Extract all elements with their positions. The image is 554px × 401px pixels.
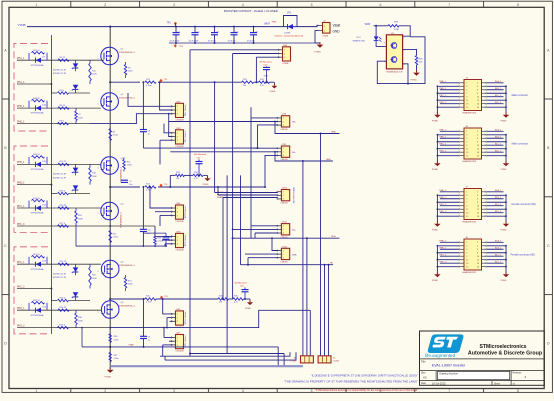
resistor R6 22 bbox=[58, 105, 69, 109]
connector J6 HEADER 8X2 bbox=[459, 126, 487, 163]
wire VBAT to R39 bbox=[374, 25, 389, 27]
resistor R15 4.70m bbox=[145, 296, 156, 304]
svg-text:PHD_1: PHD_1 bbox=[17, 308, 25, 310]
zener diodes BZX84C12-TR pair bbox=[53, 264, 78, 300]
resistor R24 100K bbox=[75, 208, 84, 226]
svg-text:10uF-100V: 10uF-100V bbox=[189, 40, 200, 42]
resistor R51 10 bypass bbox=[29, 254, 47, 264]
svg-text:4.7k: 4.7k bbox=[194, 178, 198, 180]
net PHD_1 bbox=[17, 308, 25, 310]
ground PGND J8 right bbox=[501, 272, 510, 282]
wire VBatt GND to ground bbox=[315, 31, 320, 43]
ground PGND J6 left bbox=[432, 161, 441, 171]
svg-text:3: 3 bbox=[283, 155, 284, 157]
svg-text:BLD_1: BLD_1 bbox=[495, 211, 502, 213]
wire trunk main bbox=[109, 47, 111, 369]
svg-text:14: 14 bbox=[477, 212, 479, 214]
wire J6 right harness bbox=[487, 129, 507, 164]
wire row PHC_1 bbox=[17, 207, 101, 209]
svg-text:3: 3 bbox=[105, 174, 106, 176]
bus thick pale bbox=[110, 365, 303, 367]
testpoint TP3 bbox=[160, 79, 169, 83]
capacitor C5 bbox=[247, 26, 259, 44]
label VBAT top bbox=[264, 21, 277, 26]
resistor D12 10 bypass bbox=[29, 198, 47, 208]
svg-text:PHB_3: PHB_3 bbox=[17, 121, 25, 123]
transistor Q3 STB300NF04L-4 bbox=[98, 157, 125, 183]
label STMicroelectronics bbox=[480, 344, 527, 350]
wire G2 row226 extension bbox=[90, 225, 155, 227]
connector J1A bbox=[278, 44, 291, 65]
svg-text:PHC_1: PHC_1 bbox=[17, 262, 25, 264]
svg-text:100K: 100K bbox=[128, 71, 133, 73]
resistor R53 10k bbox=[242, 79, 254, 87]
svg-text:2: 2 bbox=[477, 242, 478, 244]
svg-text:PGND: PGND bbox=[270, 91, 276, 93]
svg-text:2: 2 bbox=[283, 121, 284, 123]
svg-text:3: 3 bbox=[173, 3, 175, 7]
svg-text:"IL DISEGNO E’ DI PROPRIETA’ S: "IL DISEGNO E’ DI PROPRIETA’ ST CHE SI R… bbox=[311, 373, 418, 377]
connector CN8 GH+ bbox=[277, 114, 297, 131]
svg-text:1: 1 bbox=[98, 213, 99, 215]
wire phase B filter row bbox=[170, 174, 207, 176]
svg-text:PHC_1: PHC_1 bbox=[439, 255, 446, 257]
wire GH- row to net GHB bbox=[275, 152, 333, 161]
svg-text:47uF-BV: 47uF-BV bbox=[228, 40, 237, 42]
svg-text:PHB_1: PHB_1 bbox=[439, 197, 446, 199]
capacitor C2 bbox=[189, 26, 201, 44]
svg-text:PHB_1: PHB_1 bbox=[439, 137, 446, 139]
connector J8 HEADER 8X2 bbox=[459, 237, 487, 274]
wire J7 left harness bbox=[437, 189, 459, 224]
resistor R21 4.70m bbox=[109, 231, 119, 243]
diode D14 STPS2H100A bbox=[31, 307, 47, 317]
wire J8 left harness bbox=[437, 240, 459, 275]
svg-text:11: 11 bbox=[466, 260, 468, 262]
svg-text:STPS2H100A: STPS2H100A bbox=[31, 212, 45, 215]
svg-text:1: 1 bbox=[98, 312, 99, 314]
svg-text:4: 4 bbox=[477, 86, 478, 88]
net PHC_3 bbox=[17, 224, 25, 226]
svg-text:2: 2 bbox=[105, 203, 106, 205]
svg-text:R48 10: R48 10 bbox=[33, 98, 41, 100]
net PHB_1 bbox=[17, 106, 25, 108]
resistor R49 10 bypass bbox=[29, 154, 47, 164]
svg-text:BLD_1: BLD_1 bbox=[495, 262, 502, 264]
svg-text:15: 15 bbox=[466, 216, 468, 218]
wire phase W into CN10 bbox=[223, 197, 278, 199]
wire CN2 pin wires bbox=[90, 81, 172, 123]
diode D10 STPS2H100A bbox=[31, 105, 47, 115]
svg-text:STB300NF04L-4: STB300NF04L-4 bbox=[119, 265, 135, 267]
wire GD row to net GDA bbox=[232, 235, 340, 239]
svg-text:CN11: CN11 bbox=[282, 222, 288, 224]
svg-text:1: 1 bbox=[466, 242, 467, 244]
svg-text:PHC_1: PHC_1 bbox=[439, 95, 446, 97]
svg-text:R20 22: R20 22 bbox=[60, 205, 68, 207]
diode D12 STPS2H100A bbox=[31, 204, 47, 214]
wire phase B sense row bbox=[110, 186, 265, 188]
resistor R48 10 bypass bbox=[29, 98, 47, 108]
svg-text:16: 16 bbox=[477, 107, 479, 109]
svg-text:470m: 470m bbox=[114, 339, 119, 341]
svg-text:7: 7 bbox=[466, 142, 467, 144]
resistor R5 4.70m bbox=[109, 129, 119, 141]
wire phase B filter riser bbox=[169, 175, 171, 188]
svg-text:3: 3 bbox=[283, 125, 284, 127]
svg-text:PGND: PGND bbox=[432, 280, 439, 282]
connector CN7 ECU- Select bbox=[171, 333, 187, 353]
svg-text:4.70m: 4.70m bbox=[146, 85, 152, 87]
connector CN3 GD- Select bbox=[171, 128, 187, 148]
net PHA_3 bbox=[17, 81, 25, 84]
resistor R29 0 bbox=[58, 324, 69, 328]
wire CN4 pin wires bbox=[149, 186, 172, 226]
svg-text:100K: 100K bbox=[92, 74, 97, 76]
wire bottom row 356 bbox=[160, 352, 290, 356]
wire J6 left harness bbox=[437, 129, 459, 164]
ground PGND J7 right bbox=[501, 221, 510, 231]
resistor R47 10 bypass bbox=[29, 50, 47, 60]
wire bottom row 360 bbox=[165, 352, 296, 360]
svg-text:3: 3 bbox=[283, 233, 284, 235]
svg-text:11: 11 bbox=[466, 149, 468, 151]
svg-text:PGND: PGND bbox=[411, 80, 418, 82]
svg-text:14: 14 bbox=[477, 152, 479, 154]
svg-text:CN1005: CN1005 bbox=[280, 203, 288, 205]
svg-text:14: 14 bbox=[477, 103, 479, 105]
svg-text:4.7k: 4.7k bbox=[260, 85, 264, 87]
svg-text:10: 10 bbox=[477, 256, 479, 258]
svg-text:Not Mounted: Not Mounted bbox=[235, 281, 248, 284]
svg-text:VTAP: VTAP bbox=[129, 344, 135, 347]
group outline dashed bbox=[14, 146, 48, 232]
svg-text:3: 3 bbox=[173, 389, 175, 393]
wire bus x232 bbox=[232, 54, 234, 300]
svg-text:BOOSTER CONTACT - Default = CL: BOOSTER CONTACT - Default = CLOSED bbox=[224, 9, 278, 13]
svg-text:1: 1 bbox=[466, 83, 467, 85]
resistor R2 22 bbox=[58, 57, 69, 61]
svg-text:BLB_1: BLB_1 bbox=[495, 197, 502, 199]
svg-text:5: 5 bbox=[311, 3, 313, 7]
svg-text:Drawing Number: Drawing Number bbox=[439, 373, 458, 376]
ground PGND J3 right bbox=[501, 112, 510, 122]
label J6 type bbox=[512, 143, 529, 146]
svg-text:3: 3 bbox=[105, 318, 106, 320]
svg-text:8: 8 bbox=[477, 202, 478, 204]
resistor R8 0 bbox=[58, 120, 69, 124]
zener diodes BZX84C12-TR pair bbox=[53, 60, 78, 93]
svg-text:J1A: J1A bbox=[283, 44, 287, 47]
svg-text:CN6: CN6 bbox=[176, 309, 181, 311]
svg-text:PGND: PGND bbox=[501, 280, 508, 282]
svg-text:3: 3 bbox=[466, 246, 467, 248]
svg-text:10: 10 bbox=[477, 97, 479, 99]
svg-text:4.70m: 4.70m bbox=[146, 302, 152, 304]
wire row PHB_3 bbox=[17, 184, 90, 194]
svg-text:7: 7 bbox=[448, 3, 450, 7]
svg-text:PHD_1: PHD_1 bbox=[439, 262, 446, 264]
wire CN7 pin wires bbox=[163, 327, 172, 357]
svg-text:5: 5 bbox=[311, 389, 313, 393]
svg-text:12: 12 bbox=[477, 260, 479, 262]
svg-text:1: 1 bbox=[98, 271, 99, 273]
svg-text:Sheet: Sheet bbox=[494, 382, 500, 385]
svg-text:PGND: PGND bbox=[501, 169, 508, 171]
svg-text:ECU+ Select: ECU+ Select bbox=[184, 311, 187, 324]
svg-text:100K: 100K bbox=[78, 218, 83, 220]
wire J1A pin3 bbox=[256, 56, 279, 58]
label PHASE U V W bbox=[217, 191, 227, 199]
capacitor C52 not mounted bbox=[235, 281, 249, 300]
svg-text:BZX84C12-TR: BZX84C12-TR bbox=[53, 277, 67, 279]
net PHB_3 bbox=[17, 121, 25, 123]
svg-text:BLC_1: BLC_1 bbox=[495, 255, 502, 257]
wire J3 left harness bbox=[437, 80, 459, 115]
ground PGND led block bbox=[411, 70, 420, 82]
wire phase A sense row bbox=[110, 81, 274, 83]
svg-text:2: 2 bbox=[105, 261, 106, 263]
wire J1A pin1 bbox=[190, 49, 279, 51]
svg-text:4: 4 bbox=[477, 135, 478, 137]
led D14 GREEN LED bbox=[353, 26, 382, 43]
svg-text:R51 10: R51 10 bbox=[33, 254, 41, 256]
svg-text:PHA_3: PHA_3 bbox=[17, 81, 25, 84]
svg-text:1u: 1u bbox=[147, 233, 149, 235]
svg-text:1/2W: 1/2W bbox=[127, 165, 132, 167]
svg-text:Optional - Default Not Mounted: Optional - Default Not Mounted bbox=[275, 35, 304, 38]
svg-text:PHB_1: PHB_1 bbox=[439, 88, 446, 90]
ground GND phase B filter bbox=[203, 175, 211, 185]
wire row PHB_3 bbox=[17, 123, 90, 125]
svg-text:100K: 100K bbox=[394, 29, 400, 31]
svg-text:8: 8 bbox=[477, 142, 478, 144]
wire bottom row 347 bbox=[82, 346, 278, 348]
label J3 type bbox=[512, 94, 529, 97]
svg-text:5: 5 bbox=[466, 199, 467, 201]
svg-text:Female connector (90): Female connector (90) bbox=[512, 203, 536, 206]
svg-text:8: 8 bbox=[477, 93, 478, 95]
svg-text:GDA: GDA bbox=[331, 235, 336, 238]
diode D13 STPS2H100A bbox=[31, 261, 47, 271]
svg-text:STB300NF04L-4: STB300NF04L-4 bbox=[119, 306, 135, 308]
wire low-side gate row G2 bbox=[76, 226, 167, 247]
svg-text:TPA7: TPA7 bbox=[272, 21, 278, 24]
svg-text:1: 1 bbox=[283, 250, 284, 252]
node VTDB bbox=[18, 23, 26, 27]
label BOOSTER CONTACT bbox=[224, 9, 278, 13]
svg-text:PHC_3: PHC_3 bbox=[17, 286, 25, 288]
svg-text:PHC_1: PHC_1 bbox=[439, 144, 446, 146]
svg-text:10uF-100V: 10uF-100V bbox=[170, 40, 181, 42]
svg-text:CN1008: CN1008 bbox=[176, 250, 185, 252]
wire R40 to ground bbox=[416, 65, 418, 72]
wire phase C drop bbox=[143, 298, 145, 348]
svg-text:HD: HD bbox=[330, 263, 334, 265]
svg-text:BLA_1: BLA_1 bbox=[495, 129, 502, 132]
wire bus x227 bbox=[226, 175, 228, 353]
connector J3 HEADER 8X2 bbox=[459, 77, 487, 114]
net PHC_1 bbox=[17, 262, 25, 264]
svg-text:2: 2 bbox=[105, 301, 106, 303]
svg-text:3: 3 bbox=[105, 110, 106, 112]
svg-text:HEADER 8X2: HEADER 8X2 bbox=[463, 160, 477, 163]
logo ST bbox=[425, 334, 463, 358]
wire phase A to CN8 drop bbox=[142, 81, 257, 148]
svg-text:PGND: PGND bbox=[315, 52, 322, 54]
svg-text:R6 22: R6 22 bbox=[60, 105, 66, 107]
ground PGND row A end bbox=[270, 82, 278, 93]
wire row PHB_1 bbox=[17, 163, 101, 165]
connector CN9 GH- bbox=[277, 144, 296, 161]
wire J3 right harness bbox=[487, 80, 507, 115]
wire phase C sense row bbox=[110, 298, 250, 300]
svg-text:GH+: GH+ bbox=[292, 122, 297, 124]
connector J5 CON3 bbox=[318, 356, 340, 363]
svg-text:3: 3 bbox=[466, 195, 467, 197]
svg-text:BLA_1: BLA_1 bbox=[495, 240, 502, 243]
svg-text:CN1005: CN1005 bbox=[280, 262, 288, 264]
resistor R4 0 bbox=[58, 90, 69, 94]
connector J4 CON3 bbox=[291, 356, 314, 363]
capacitor C3 bbox=[208, 26, 220, 44]
wire low-side drop G3 bbox=[81, 327, 83, 347]
svg-text:100K: 100K bbox=[78, 117, 83, 119]
wire J7 right harness bbox=[487, 189, 507, 224]
wire CN5 pin wires bbox=[155, 226, 172, 244]
svg-text:2: 2 bbox=[477, 83, 478, 85]
svg-text:1: 1 bbox=[466, 131, 467, 133]
net PHC_3 bbox=[17, 286, 25, 288]
svg-text:10: 10 bbox=[477, 145, 479, 147]
svg-text:MOTOR PHASE: MOTOR PHASE bbox=[293, 187, 296, 204]
svg-text:ECU Select: ECU Select bbox=[184, 234, 187, 246]
ground PGND J3 left bbox=[432, 112, 441, 122]
svg-text:4.70m: 4.70m bbox=[113, 237, 119, 239]
capacitor C8 1u bbox=[140, 130, 151, 136]
svg-text:CN12: CN12 bbox=[282, 246, 288, 248]
svg-text:CN10: CN10 bbox=[282, 188, 288, 190]
svg-text:STB300NF04L-4: STB300NF04L-4 bbox=[119, 98, 135, 100]
resistor R27 100K bbox=[124, 275, 133, 291]
svg-text:BLC_1: BLC_1 bbox=[495, 95, 502, 97]
capacitor C4 bbox=[228, 26, 240, 44]
svg-text:1: 1 bbox=[283, 192, 284, 194]
svg-text:8: 8 bbox=[477, 253, 478, 255]
connector J7 HEADER 8X2 bbox=[459, 186, 487, 223]
svg-text:6: 6 bbox=[477, 138, 478, 140]
svg-text:BLB_1: BLB_1 bbox=[495, 248, 502, 250]
resistor R37 470m bbox=[109, 352, 119, 361]
wire bus x251 bbox=[250, 107, 252, 238]
svg-text:PGND: PGND bbox=[203, 184, 209, 186]
svg-text:BZX84C12-TR: BZX84C12-TR bbox=[53, 177, 67, 179]
svg-text:GHA: GHA bbox=[331, 131, 336, 134]
zener diodes BZX84C12-TR pair bbox=[53, 164, 78, 193]
ground PGND under VBatt bbox=[315, 42, 324, 54]
svg-text:6: 6 bbox=[477, 90, 478, 92]
svg-text:EVAL-L9907 Inverter: EVAL-L9907 Inverter bbox=[432, 364, 466, 368]
testpoint TP4 bbox=[160, 184, 169, 188]
svg-text:PHB_1: PHB_1 bbox=[439, 248, 446, 250]
svg-text:Female connector (90): Female connector (90) bbox=[511, 254, 535, 257]
svg-text:PHD_3: PHD_3 bbox=[17, 325, 25, 327]
svg-text:Not Mounted: Not Mounted bbox=[194, 153, 207, 156]
svg-text:PHB_3: PHB_3 bbox=[17, 182, 25, 184]
svg-text:BLC_1: BLC_1 bbox=[495, 144, 502, 146]
svg-text:3: 3 bbox=[466, 135, 467, 137]
svg-text:PHB_1: PHB_1 bbox=[17, 162, 25, 164]
resistor R14 4.70m bbox=[145, 184, 156, 192]
svg-text:GH-: GH- bbox=[292, 152, 296, 154]
testpoint TP6 bbox=[160, 296, 169, 300]
transistor Q2 STB300NF04L-4 bbox=[98, 93, 136, 112]
wire bus x223 bbox=[222, 198, 224, 301]
label EVAL-L9907 Inverter bbox=[432, 364, 466, 368]
svg-text:1u: 1u bbox=[148, 134, 150, 136]
svg-text:PHA_1: PHA_1 bbox=[439, 129, 446, 132]
svg-text:TP1: TP1 bbox=[167, 22, 172, 24]
wire feeds to J5 bbox=[320, 133, 330, 356]
svg-text:R15 22: R15 22 bbox=[60, 161, 68, 163]
wire G3 row327 extension bbox=[90, 310, 310, 328]
svg-text:PGND: PGND bbox=[432, 169, 439, 171]
svg-text:HEADER 8X2: HEADER 8X2 bbox=[463, 112, 477, 115]
wire bus x240 bbox=[240, 175, 242, 264]
svg-text:CN5: CN5 bbox=[176, 231, 181, 233]
svg-text:BLA_1: BLA_1 bbox=[495, 189, 502, 192]
label Size row bbox=[421, 373, 527, 380]
wire bottom row 353 bbox=[189, 353, 284, 355]
svg-text:50n: 50n bbox=[129, 184, 132, 186]
resistor R18 100K bbox=[89, 164, 98, 184]
svg-text:CN1008: CN1008 bbox=[176, 351, 185, 353]
resistor R22 22 bbox=[58, 261, 69, 265]
label legal line 1 bbox=[311, 373, 418, 377]
svg-text:CN2: CN2 bbox=[176, 101, 181, 103]
resistor R17 0 bbox=[58, 223, 69, 227]
wire bus x214 bbox=[214, 81, 216, 192]
connector CN5 ECU Select bbox=[171, 231, 187, 251]
wire GB row to net HD bbox=[241, 263, 334, 266]
resistor R52 10 bypass bbox=[29, 300, 47, 310]
svg-text:2: 2 bbox=[283, 152, 284, 154]
net PHD_3 bbox=[17, 325, 25, 327]
label Date row bbox=[421, 381, 515, 385]
connector CN10 MOTOR PHASE bbox=[277, 187, 296, 205]
svg-text:2: 2 bbox=[104, 3, 106, 7]
capacitor C7 50n bbox=[121, 180, 132, 186]
transistor Q5 STB300NF04L-4 bbox=[98, 260, 136, 279]
svg-text:7: 7 bbox=[448, 389, 450, 393]
svg-text:PHB_1: PHB_1 bbox=[17, 106, 25, 108]
svg-text:PHD_1: PHD_1 bbox=[439, 151, 446, 153]
svg-text:14: 14 bbox=[477, 263, 479, 265]
svg-text:STPS2H100A: STPS2H100A bbox=[31, 314, 45, 317]
svg-text:A3: A3 bbox=[423, 375, 427, 379]
wire row PHD_3 bbox=[17, 327, 90, 329]
label Title bbox=[421, 360, 426, 363]
wire J1A pin2 bbox=[233, 53, 279, 55]
wire left return vertical bbox=[50, 35, 52, 334]
svg-text:BZX84C12-TR: BZX84C12-TR bbox=[53, 73, 67, 75]
svg-text:PHA_1: PHA_1 bbox=[17, 57, 25, 60]
wire feeds to J4 bbox=[302, 160, 310, 356]
label Automotive Discrete Group bbox=[468, 350, 543, 356]
svg-text:PHA_1: PHA_1 bbox=[439, 240, 446, 243]
svg-text:CON3: CON3 bbox=[291, 360, 298, 362]
svg-text:ECO Select: ECO Select bbox=[184, 206, 187, 218]
